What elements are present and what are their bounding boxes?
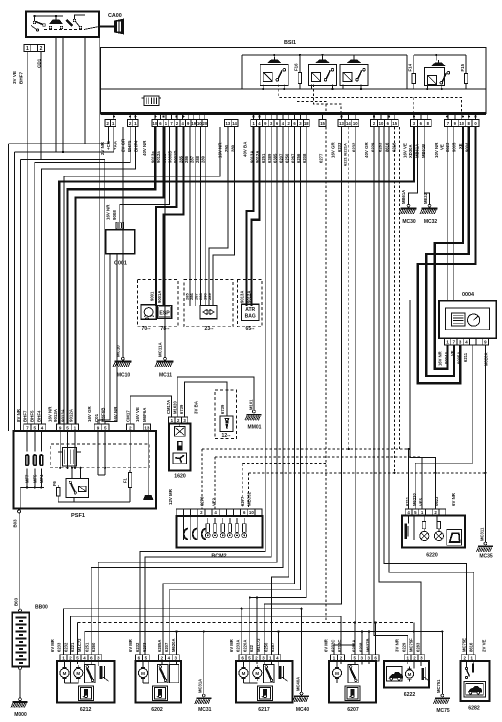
- drop MC40A: [301, 609, 303, 692]
- svg-text:3V VE: 3V VE: [12, 71, 17, 84]
- svg-text:M1C73: M1C73: [256, 638, 261, 652]
- siren 6222 pins: [404, 655, 411, 661]
- dashed wire to MC35 area: [248, 472, 485, 474]
- svg-text:6216: 6216: [391, 142, 396, 152]
- dashed actuator line in CA00: [44, 29, 84, 31]
- BSI connector group A pins 2,1: [105, 120, 110, 127]
- switch contact S3 inside CA00: [67, 20, 73, 26]
- svg-text:B03: B03: [13, 519, 18, 528]
- svg-text:M101: M101: [249, 399, 254, 410]
- MC32 ground: [428, 204, 431, 207]
- PSF1 fuse F6: [57, 487, 60, 496]
- svg-text:6217: 6217: [258, 707, 270, 713]
- svg-text:16V GR: 16V GR: [331, 142, 336, 158]
- svg-text:6282: 6282: [468, 705, 480, 711]
- svg-text:6233A: 6233A: [236, 640, 241, 652]
- svg-text:6739: 6739: [179, 404, 184, 414]
- svg-text:MC31: MC31: [198, 707, 212, 713]
- svg-text:1: 1: [26, 46, 29, 52]
- svg-text:6285A: 6285A: [157, 640, 162, 652]
- svg-text:6V MR: 6V MR: [229, 639, 234, 652]
- lock actuator 6202 box: [136, 661, 181, 702]
- svg-text:MB61B: MB61B: [421, 144, 426, 158]
- wire MB61A to MC30: [409, 127, 418, 207]
- wire 9005 to 0004: [452, 127, 454, 301]
- svg-text:40V GR: 40V GR: [364, 142, 369, 158]
- BSI connector group B pins 2,1: [128, 120, 133, 127]
- drop 6207 pin3b: [368, 632, 370, 656]
- 6212 latch icon: [100, 666, 103, 679]
- svg-text:M: M: [335, 671, 339, 676]
- PSF1 internal dashed region: [51, 444, 149, 468]
- svg-text:MC35: MC35: [479, 554, 493, 560]
- 1620 pin row: [169, 417, 175, 424]
- 6217 motor2: [253, 668, 262, 677]
- svg-text:10: 10: [249, 510, 254, 515]
- thick wire to 0004 pin7: [426, 127, 469, 376]
- svg-text:9012A: 9012A: [246, 291, 251, 303]
- svg-text:M: M: [141, 671, 145, 676]
- svg-text:289: 289: [201, 155, 206, 163]
- relay RL3 in BSI: [340, 64, 368, 85]
- svg-text:9013A: 9013A: [240, 291, 245, 303]
- 6220 pin row: [405, 509, 412, 515]
- wire battery to M000: [19, 670, 21, 700]
- PSF1 internal bus wires with dots: [59, 431, 61, 468]
- 6207 motor: [332, 668, 341, 677]
- wire 6267 down: [163, 127, 295, 655]
- 1620 small icon: [177, 441, 183, 451]
- svg-text:MC31A: MC31A: [198, 679, 203, 693]
- svg-text:10: 10: [459, 121, 464, 126]
- svg-text:9004A: 9004A: [444, 352, 449, 364]
- svg-text:BCM2: BCM2: [211, 554, 226, 560]
- svg-text:6211: 6211: [405, 496, 410, 506]
- BCM2 pin row: [176, 509, 183, 516]
- svg-text:6286A: 6286A: [352, 640, 357, 652]
- svg-text:F6: F6: [52, 480, 57, 486]
- wire 6389 down: [145, 127, 271, 655]
- svg-text:9: 9: [97, 425, 100, 430]
- dashed wire XE: [399, 127, 401, 449]
- svg-text:M620A: M620A: [171, 639, 176, 653]
- svg-text:6222: 6222: [404, 692, 416, 698]
- svg-text:2: 2: [129, 425, 132, 430]
- fuse F16: [298, 73, 301, 84]
- svg-text:6232: 6232: [352, 142, 357, 152]
- svg-text:6V NR: 6V NR: [451, 492, 456, 506]
- MM01 ground: [245, 415, 262, 421]
- 6212 switch: [85, 664, 95, 682]
- BSI internal connector symbol: [144, 96, 159, 106]
- svg-text:MM01: MM01: [248, 425, 262, 431]
- svg-text:MC32: MC32: [424, 219, 438, 225]
- svg-text:18: 18: [304, 121, 309, 126]
- 6212 motor2: [74, 668, 83, 677]
- svg-text:MC10: MC10: [117, 373, 131, 379]
- svg-text:70--: 70--: [142, 326, 151, 332]
- arrows icon 23: [200, 305, 217, 318]
- BCM2 inner wires: [183, 516, 185, 540]
- connector below CA00 (pins 1,2): [24, 45, 45, 52]
- thick wire 9012A to PSF1 pin1: [76, 127, 164, 424]
- PSF1 pin 13: [143, 424, 150, 431]
- svg-text:VE2: VE2: [212, 497, 217, 506]
- wire MC75F: [413, 623, 415, 656]
- svg-text:M: M: [408, 672, 412, 677]
- relay RL1 in BSI: [260, 64, 288, 85]
- svg-text:MC40A: MC40A: [295, 677, 300, 691]
- dashed wire MEC32: [247, 473, 249, 509]
- svg-text:M627B: M627B: [366, 639, 371, 653]
- svg-text:10: 10: [153, 121, 158, 126]
- svg-text:6739: 6739: [220, 404, 225, 414]
- svg-text:BHF7: BHF7: [23, 410, 28, 422]
- thick wire 9013A to airbag box: [247, 127, 254, 306]
- dashed box 65 airbag: [238, 280, 262, 327]
- BSI internal bus: [101, 88, 487, 90]
- svg-text:12--: 12--: [222, 433, 231, 439]
- svg-text:16V NR: 16V NR: [113, 406, 118, 422]
- svg-text:19: 19: [191, 121, 196, 126]
- svg-text:C001: C001: [114, 261, 127, 267]
- svg-text:6207: 6207: [347, 707, 359, 713]
- ignition switch unit CA00 box: [26, 12, 99, 38]
- svg-text:9001A: 9001A: [157, 291, 162, 303]
- wire M1620 to MM01 ground: [177, 377, 254, 417]
- svg-text:ME32: ME32: [423, 192, 428, 204]
- 6202 lock icon: [153, 686, 168, 701]
- svg-text:9000D: 9000D: [167, 151, 172, 163]
- svg-text:6213C: 6213C: [337, 640, 342, 652]
- wire to MC11: [164, 127, 166, 360]
- fuse F15: [464, 73, 467, 83]
- 6202 motor: [138, 668, 147, 677]
- svg-text:6250: 6250: [263, 642, 268, 652]
- 6207 lock icon: [345, 686, 360, 701]
- svg-text:M000: M000: [14, 712, 27, 718]
- svg-text:9013A: 9013A: [53, 408, 58, 422]
- wire 6283 to 6222 pin3: [379, 127, 421, 655]
- MC35 ground: [484, 542, 487, 545]
- svg-text:MC751: MC751: [436, 679, 441, 693]
- svg-text:MC75E: MC75E: [462, 638, 467, 652]
- wire 9008 BSI to C001: [120, 127, 170, 222]
- svg-text:16V VE: 16V VE: [403, 143, 408, 158]
- svg-text:289: 289: [207, 293, 212, 300]
- C001 box: [106, 230, 135, 254]
- svg-text:13: 13: [226, 121, 231, 126]
- svg-text:16V GR: 16V GR: [87, 406, 92, 422]
- thick wire 9012A to airbag box: [252, 127, 260, 306]
- ESP skid icon: [141, 305, 156, 319]
- MC10 ground: [122, 357, 125, 360]
- wire 0004 pin4 to 6220 pin5: [415, 345, 473, 509]
- svg-text:MC75: MC75: [436, 708, 450, 714]
- svg-text:M1C72: M1C72: [77, 638, 82, 652]
- svg-text:BSI1: BSI1: [284, 40, 296, 46]
- wire 8616 to 6282: [389, 127, 474, 655]
- thick wire 9001D to ESP box: [164, 127, 184, 306]
- BSI right top bus: [414, 54, 466, 56]
- svg-text:VE: VE: [440, 144, 445, 150]
- lock actuator 6212 pins: [60, 655, 67, 661]
- lock actuator 6202 pins: [135, 655, 142, 661]
- lock actuator 6207 box: [329, 661, 376, 702]
- 6222 inner wires: [407, 661, 409, 664]
- wire switch S2 down: [56, 37, 99, 152]
- 6222 actuator icon: [422, 668, 425, 680]
- wire CD1 CA00 pin2 jog: [41, 52, 105, 425]
- wire BHF7 CA00 pin1 to PSF1 pin7: [26, 52, 28, 425]
- dashed wire VE2 to BCM2: [214, 457, 216, 509]
- wire 8623 to 0004: [446, 127, 448, 301]
- svg-text:MC30: MC30: [402, 219, 416, 225]
- wire 6208 down: [250, 127, 306, 598]
- svg-text:10: 10: [379, 121, 384, 126]
- svg-text:20: 20: [202, 121, 207, 126]
- wire 290 step: [209, 127, 228, 306]
- svg-text:1: 1: [112, 121, 115, 126]
- 6212 inner wires: [64, 661, 66, 665]
- line y616: [71, 616, 342, 655]
- thick wire XD30A long bus to PSF1 pin9: [59, 127, 414, 424]
- PSF1 pin group 9,5 mid: [94, 424, 101, 431]
- wire BHF4 BSI to PSF1: [42, 127, 136, 424]
- 6222 car icon: [387, 667, 403, 682]
- wire 6739 to injector: [185, 382, 227, 417]
- wire 6229 to 6222: [374, 127, 408, 655]
- svg-text:2V VE: 2V VE: [482, 639, 487, 652]
- 0004 screen icon: [452, 313, 465, 326]
- svg-text:3V NR: 3V NR: [395, 638, 400, 652]
- fuse F14: [412, 73, 415, 83]
- 6207 switch: [348, 664, 358, 682]
- svg-text:1: 1: [74, 425, 77, 430]
- svg-text:9001: 9001: [150, 291, 155, 301]
- svg-text:6251: 6251: [84, 642, 89, 652]
- PSF1 internal relay grid symbol: [63, 448, 77, 467]
- svg-text:15: 15: [392, 121, 397, 126]
- svg-text:ATR: ATR: [245, 307, 255, 313]
- svg-text:BHF5: BHF5: [30, 410, 35, 422]
- svg-text:MC40: MC40: [296, 707, 310, 713]
- BSI connector group H: [411, 120, 418, 127]
- PSF1 pin group 7,5,4: [24, 424, 31, 431]
- svg-text:288: 288: [195, 155, 200, 163]
- BSI connector group G: [371, 120, 378, 127]
- thick wire to 0004 pin3: [418, 127, 476, 384]
- ESP text icon: [157, 305, 171, 318]
- wire 285: [189, 127, 191, 306]
- svg-text:F15: F15: [460, 63, 465, 71]
- 6220 box: [402, 515, 465, 547]
- svg-text:10: 10: [197, 121, 202, 126]
- svg-text:5: 5: [104, 425, 107, 430]
- BSI connector group F: [338, 120, 345, 127]
- svg-text:16V NR: 16V NR: [438, 351, 443, 366]
- dashed wire 6277 long: [325, 127, 327, 623]
- svg-text:MC11A: MC11A: [158, 342, 163, 357]
- wire switch S1 down to BSI: [62, 37, 64, 152]
- svg-text:6220A: 6220A: [242, 640, 247, 652]
- svg-text:6V MR: 6V MR: [128, 639, 133, 652]
- svg-text:15: 15: [320, 121, 325, 126]
- svg-text:9005A: 9005A: [457, 352, 462, 364]
- BSI internal top bus: [242, 54, 407, 56]
- drop to 6217 pin6: [241, 609, 243, 655]
- 6207 inner wires: [336, 661, 338, 665]
- C001 connector symbol: [116, 222, 124, 229]
- 6217 switch: [264, 664, 274, 682]
- B03 terminal: [18, 510, 21, 513]
- svg-text:6V MR: 6V MR: [324, 639, 329, 652]
- svg-text:6276: 6276: [200, 496, 205, 506]
- 6222 motor: [405, 670, 413, 678]
- svg-text:8V NR: 8V NR: [16, 408, 21, 422]
- relay RL2 in BSI: [309, 64, 337, 85]
- svg-text:BHF4: BHF4: [37, 410, 42, 422]
- MC40 ground: [300, 692, 303, 695]
- svg-text:+AA: +AA: [113, 140, 118, 150]
- svg-text:2: 2: [129, 121, 132, 126]
- svg-text:9008: 9008: [112, 210, 117, 220]
- svg-text:6211: 6211: [463, 352, 468, 362]
- BSI connector group I: [445, 120, 452, 127]
- dashed distribution line: [76, 623, 78, 656]
- svg-text:6283: 6283: [377, 142, 382, 152]
- lock actuator 6217 pins: [239, 655, 246, 661]
- 1620 lamp icon: [174, 427, 185, 437]
- svg-text:6233: 6233: [142, 642, 147, 652]
- BSI1 box: [101, 48, 487, 114]
- wire 289 step: [213, 127, 235, 306]
- thick wire 9000D to ESP box: [156, 127, 177, 306]
- 6212 motor1: [60, 668, 69, 677]
- svg-text:CM17: CM17: [126, 410, 131, 422]
- lock actuator 6212 box: [57, 661, 114, 702]
- svg-text:6283: 6283: [416, 642, 421, 652]
- svg-text:6207: 6207: [164, 642, 169, 652]
- 6202 extra cell: [170, 664, 179, 682]
- svg-text:6277: 6277: [318, 153, 323, 163]
- svg-text:9012A: 9012A: [69, 408, 74, 422]
- MC30 ground: [407, 204, 410, 207]
- svg-text:9005: 9005: [452, 142, 457, 152]
- PSF1 fuses MF7 MF5 MF4: [25, 454, 29, 466]
- BCM2 box: [176, 516, 262, 548]
- MC75 stem: [441, 632, 443, 695]
- svg-text:B03: B03: [14, 597, 19, 606]
- 6217 inner wires: [243, 661, 245, 665]
- svg-text:C01: C01: [94, 413, 99, 422]
- svg-text:65--: 65--: [246, 326, 255, 332]
- wire BHF5 BSI to PSF1: [35, 127, 130, 424]
- 6282 inner wires: [465, 661, 467, 667]
- MC31 ground: [202, 694, 205, 697]
- svg-text:7: 7: [26, 425, 29, 430]
- wire 6207 down: [91, 127, 283, 655]
- svg-text:CA00: CA00: [108, 13, 122, 19]
- siren 6222 box: [384, 661, 429, 687]
- svg-text:16V VE: 16V VE: [135, 407, 140, 422]
- 6220 door icon: [447, 529, 462, 545]
- svg-text:6221: 6221: [70, 642, 75, 652]
- 0004 inner box: [446, 308, 490, 330]
- svg-text:XD30A: XD30A: [408, 145, 413, 159]
- svg-text:M020A: M020A: [484, 353, 489, 367]
- svg-text:MC11: MC11: [159, 373, 172, 379]
- relay RL4 in BSI: [424, 67, 444, 85]
- svg-text:MB61A: MB61A: [401, 190, 406, 204]
- svg-text:5: 5: [66, 425, 69, 430]
- svg-text:M: M: [242, 671, 246, 676]
- svg-text:BAG: BAG: [245, 314, 256, 320]
- svg-text:23--: 23--: [205, 326, 214, 332]
- svg-text:286: 286: [184, 155, 189, 163]
- wire stubs top of CA00 switches: [35, 16, 64, 21]
- svg-text:BHF7: BHF7: [19, 72, 24, 84]
- wire to BSI pin1 group1: [63, 127, 114, 152]
- svg-text:6232: 6232: [135, 642, 140, 652]
- 6202 inner wires: [142, 661, 144, 665]
- svg-text:BHF4: BHF4: [134, 140, 139, 152]
- lock 6282 box: [461, 661, 490, 701]
- svg-text:12V MR: 12V MR: [168, 488, 173, 505]
- lock actuator 6217 box: [236, 661, 292, 702]
- svg-text:6229: 6229: [402, 642, 407, 652]
- svg-text:M6F6A: M6F6A: [142, 407, 147, 422]
- svg-text:9012a: 9012a: [156, 151, 161, 163]
- svg-text:6208: 6208: [359, 642, 364, 652]
- svg-text:M: M: [63, 671, 67, 676]
- switch contact S2 inside CA00: [50, 20, 63, 24]
- wire 287: [200, 127, 202, 306]
- svg-text:16V NR: 16V NR: [218, 142, 223, 158]
- svg-text:F16: F16: [294, 63, 299, 71]
- BCM2 coils: [184, 529, 188, 540]
- lock 6282 pins: [461, 655, 468, 661]
- svg-text:M1620: M1620: [173, 401, 178, 414]
- svg-text:9: 9: [59, 425, 62, 430]
- svg-text:6212: 6212: [80, 707, 92, 713]
- svg-text:CM17A: CM17A: [166, 400, 171, 414]
- 6202 switch: [158, 664, 168, 682]
- svg-text:10: 10: [353, 121, 358, 126]
- svg-text:F14: F14: [408, 63, 413, 71]
- wire 6233 down to 6217: [264, 127, 341, 655]
- 6220 lamp2: [437, 522, 440, 529]
- svg-text:M: M: [255, 671, 259, 676]
- MC75 ground: [441, 694, 444, 697]
- svg-text:VE: VE: [450, 350, 455, 356]
- svg-text:2V NR: 2V NR: [100, 141, 105, 155]
- 0004 gauge icon: [468, 314, 480, 326]
- dashed wire 6276 to BCM2: [201, 449, 203, 509]
- svg-text:0004: 0004: [462, 292, 474, 298]
- line 6V MR common: [64, 609, 302, 655]
- injector icon box: [220, 416, 233, 432]
- svg-text:6260: 6260: [91, 642, 96, 652]
- BSI connector group E: [251, 120, 257, 127]
- dashed box 70/78 ESP: [138, 280, 178, 327]
- svg-text:40V NR: 40V NR: [142, 140, 147, 156]
- wire 6202 pin3 riser: [175, 630, 177, 632]
- thick wire to 0004 pin1: [435, 127, 463, 369]
- svg-text:1: 1: [134, 121, 137, 126]
- 0004 box: [439, 301, 496, 339]
- wire 6220 pin4 riser: [408, 449, 410, 509]
